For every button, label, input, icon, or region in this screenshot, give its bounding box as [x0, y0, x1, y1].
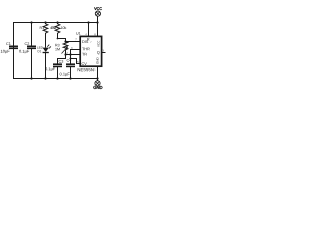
label R1 — [40, 27, 44, 29]
pin number 1 — [94, 68, 95, 70]
pin label DIS — [82, 40, 88, 43]
junction dots — [30, 21, 98, 79]
label GND — [93, 86, 102, 89]
pin label Q — [97, 51, 100, 54]
resistor R1 zigzag — [43, 24, 48, 33]
label LED — [37, 47, 42, 49]
pin number 4 — [85, 33, 86, 35]
label 47k — [61, 26, 67, 29]
pin number 6 — [71, 47, 72, 49]
wire R1 top stub — [45, 22, 47, 24]
wire R2 to pot jog — [58, 39, 66, 43]
label U1 — [76, 32, 80, 35]
LED D1 symbol — [43, 44, 52, 52]
label R3 — [55, 44, 59, 47]
pin 1 gnd bottom stub — [97, 67, 99, 80]
pin label VCC vertical — [97, 41, 99, 47]
op-amp U1 555 IC box — [80, 36, 101, 66]
wire C4 bottom — [70, 67, 72, 79]
label 0.1uF C3 — [45, 67, 55, 71]
pin number 7 inside — [90, 41, 91, 43]
node R2 corner — [57, 38, 59, 40]
potentiometer R3 arrow — [62, 46, 68, 53]
label C3 — [59, 60, 63, 63]
wire pot bottom — [65, 50, 67, 59]
node C3 bottom — [56, 77, 58, 79]
pin label TR — [82, 53, 87, 56]
pin number 7 — [75, 38, 76, 40]
ground symbol circle — [95, 81, 100, 86]
label D1 — [38, 50, 41, 52]
label R2 — [52, 26, 56, 29]
wire bottom rail GND — [13, 78, 98, 80]
pin number 3 — [103, 49, 104, 51]
pin label GND vertical — [96, 57, 98, 63]
node R1 top — [44, 21, 46, 23]
label VCC — [94, 7, 102, 10]
label C4 — [67, 59, 72, 62]
label 0.1uF C2 — [19, 50, 29, 54]
pin 3 output stub — [102, 52, 106, 54]
power VCC symbol circle — [95, 11, 100, 16]
wire vcc symbol stub — [97, 16, 99, 22]
wire TR pin 2 — [66, 54, 81, 56]
orthogonal wires (crisp) — [13, 16, 106, 81]
wire LED to rail — [45, 53, 47, 79]
node C4 bottom — [69, 77, 71, 79]
capacitor C2 plates — [27, 46, 36, 48]
capacitor C3 plates — [53, 64, 62, 66]
wire THR pin 6 — [71, 50, 81, 65]
label 10uF — [1, 50, 10, 54]
label C2 — [25, 42, 29, 45]
wire R2 bottom — [57, 33, 59, 39]
pin number 5 — [77, 61, 78, 63]
wire C2 branch lower — [31, 49, 33, 80]
wire C3 bottom — [57, 67, 59, 79]
pin number 2 — [67, 52, 68, 54]
wire gnd symbol stub — [97, 79, 99, 81]
pin number 8 — [94, 33, 95, 35]
label 1k — [50, 26, 56, 29]
label 0.1uF C4 — [60, 73, 70, 77]
node gnd rail — [96, 77, 98, 79]
label C1 — [6, 42, 10, 45]
resistor R2 zigzag — [55, 24, 60, 33]
capacitor C4 plates — [66, 64, 75, 66]
pin label CV — [82, 62, 87, 65]
wire top rail VCC — [13, 22, 99, 24]
wire R1 to LED — [45, 33, 47, 47]
node C2 bottom — [30, 77, 32, 79]
pin 4 reset top stub — [88, 22, 90, 37]
wire left vertical C1 branch — [13, 22, 15, 79]
node TR cross — [69, 53, 71, 55]
node pot TR — [64, 53, 66, 55]
node pin4 rail — [87, 21, 89, 23]
wire CV pin 5 — [70, 59, 80, 64]
node R2 top — [56, 21, 58, 23]
node CV branch — [70, 58, 72, 60]
label NE555N — [78, 68, 94, 71]
node C2 top — [30, 21, 32, 23]
wire C2 branch upper — [31, 22, 33, 46]
wire node to C3 — [58, 59, 66, 65]
node DIS pot — [64, 40, 66, 42]
pin label THR — [82, 48, 90, 51]
capacitor C1 plates — [9, 46, 18, 48]
wire R2 top stub — [57, 22, 59, 24]
label 1M — [55, 48, 59, 50]
node pin8 rail — [96, 21, 98, 23]
node LED bottom — [44, 77, 46, 79]
potentiometer R3 zigzag — [63, 42, 68, 50]
pin label R — [87, 38, 89, 41]
pin 8 vcc top stub — [97, 22, 99, 37]
wire DIS pin 7 — [66, 41, 81, 43]
